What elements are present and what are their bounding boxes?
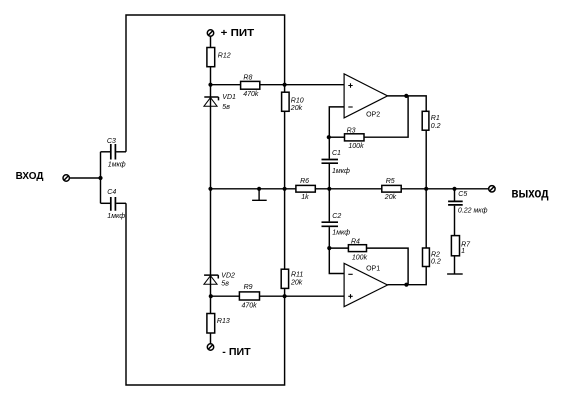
wire R3 left lead — [329, 136, 344, 138]
svg-text:OP2: OP2 — [366, 112, 380, 119]
node R8/chain/OP2+ junction — [283, 83, 287, 87]
svg-text:R4: R4 — [351, 239, 360, 246]
svg-text:R8: R8 — [243, 74, 252, 81]
svg-text:R12: R12 — [218, 53, 231, 60]
svg-text:R13: R13 — [217, 318, 230, 325]
wire OP2 minus input — [329, 107, 344, 137]
node VD2/R9/R13 junction — [209, 294, 213, 298]
wire C4 left lead — [101, 202, 111, 204]
svg-text:20k: 20k — [384, 194, 397, 201]
svg-text:C4: C4 — [107, 189, 116, 196]
svg-text:R3: R3 — [347, 127, 356, 134]
svg-text:0.2: 0.2 — [431, 258, 441, 265]
node input junction — [98, 176, 102, 180]
ground center — [252, 189, 267, 201]
node R12/R8/VD1 junction — [208, 83, 212, 87]
resistor R5 — [382, 185, 401, 192]
wire C2 bottom lead — [328, 227, 330, 248]
svg-text:1мкф: 1мкф — [332, 168, 350, 175]
wire input junction column — [100, 152, 102, 204]
node R4/C2/OP1- junction — [327, 246, 331, 250]
wire mid rail — [211, 188, 489, 190]
wire C3 left lead — [101, 151, 111, 153]
node R9/chain/OP1+ junction — [283, 294, 287, 298]
terminal output — [489, 186, 495, 192]
wire R8 row — [211, 84, 285, 86]
resistor R13 — [207, 314, 215, 334]
resistor R10 — [282, 92, 290, 111]
wire OP1 plus input — [285, 295, 345, 297]
wire C1 bottom lead — [328, 164, 330, 189]
wire R1 bottom to mid rail — [425, 130, 427, 189]
resistor R4 — [348, 245, 366, 252]
svg-text:C5: C5 — [458, 191, 467, 198]
capacitor C5 — [448, 201, 463, 205]
svg-text:5в: 5в — [222, 104, 230, 111]
op-amp OP2 — [344, 74, 387, 118]
svg-text:R10: R10 — [291, 97, 304, 104]
svg-text:470k: 470k — [242, 303, 258, 310]
svg-text:1мкф: 1мкф — [107, 213, 125, 220]
wire C1 top lead — [328, 137, 330, 159]
wire top loop: left edge, top edge, right chain upper — [126, 15, 285, 152]
wire right chain middle — [284, 111, 286, 269]
svg-text:R6: R6 — [300, 178, 309, 185]
resistor R12 — [207, 48, 215, 67]
ground right — [447, 273, 463, 275]
node mid rail at C5 — [452, 187, 456, 191]
wire R3 right lead to OP2 output — [364, 96, 408, 137]
node mid rail at C1/C2 — [327, 187, 331, 191]
wire C5 bottom to R7 — [454, 206, 456, 236]
svg-text:C2: C2 — [332, 213, 341, 220]
svg-text:R9: R9 — [244, 284, 253, 291]
resistor R2 — [423, 248, 430, 267]
node mid rail at right chain — [283, 187, 287, 191]
terminal input — [63, 175, 69, 181]
svg-text:1: 1 — [461, 248, 465, 255]
wire R4 left lead — [329, 247, 348, 249]
svg-text:OP1: OP1 — [366, 266, 380, 273]
svg-text:100k: 100k — [352, 255, 368, 262]
resistor R1 — [422, 111, 429, 130]
wire C3 right lead — [116, 151, 126, 153]
svg-text:1мкф: 1мкф — [332, 230, 350, 237]
zener diode VD1 — [204, 97, 219, 106]
wire OP1 output — [388, 267, 427, 285]
resistor R3 — [345, 134, 365, 141]
wire OP2 output — [388, 96, 427, 111]
wire input terminal to junction — [69, 177, 100, 179]
zener diode VD2 — [204, 275, 218, 284]
resistor R9 — [239, 292, 259, 300]
wire OP1 minus input — [329, 248, 344, 273]
wire C5 top lead — [454, 189, 456, 201]
svg-text:C1: C1 — [332, 150, 341, 157]
capacitor C4 — [111, 197, 116, 211]
terminal -PIT — [207, 344, 213, 350]
node OP1 output junction — [404, 283, 408, 287]
wire R9 row — [211, 295, 285, 297]
svg-text:0.22 мкф: 0.22 мкф — [458, 207, 488, 214]
svg-text:+ ПИТ: + ПИТ — [221, 28, 255, 39]
svg-text:470k: 470k — [243, 91, 259, 98]
resistor R7 — [451, 236, 459, 256]
resistor R8 — [241, 81, 260, 89]
svg-text:выход: выход — [511, 185, 548, 201]
wire C4 right lead — [116, 202, 126, 204]
resistor R11 — [281, 269, 288, 288]
capacitor C1 — [322, 160, 339, 164]
svg-text:1мкф: 1мкф — [108, 161, 126, 168]
wire R4 right lead to OP1 output — [367, 248, 409, 285]
capacitor C3 — [111, 144, 116, 160]
svg-text:R5: R5 — [386, 178, 395, 185]
resistor R6 — [296, 185, 315, 192]
svg-text:100k: 100k — [348, 143, 364, 150]
svg-text:1k: 1k — [301, 194, 309, 201]
node mid rail at ground — [257, 187, 261, 191]
svg-text:R1: R1 — [431, 115, 440, 122]
wire R7 to ground — [454, 256, 456, 274]
op-amp OP1 — [344, 263, 387, 306]
svg-text:VD1: VD1 — [222, 94, 236, 101]
node R3/C1/OP2- junction — [327, 135, 331, 139]
wire bottom loop: left edge, bottom edge, right chain lower — [126, 203, 285, 385]
capacitor C2 — [322, 222, 339, 226]
svg-text:0.2: 0.2 — [431, 123, 441, 130]
wire OP2 plus input — [285, 84, 345, 86]
node mid rail at R1/R2 — [424, 187, 428, 191]
svg-text:R11: R11 — [291, 272, 303, 279]
svg-text:- ПИТ: - ПИТ — [222, 347, 250, 358]
svg-text:ВХОД: ВХОД — [16, 170, 44, 182]
wire C2 top lead — [328, 189, 330, 222]
svg-text:VD2: VD2 — [221, 272, 235, 279]
svg-text:20k: 20k — [290, 105, 303, 112]
svg-text:C3: C3 — [107, 138, 116, 145]
svg-text:5в: 5в — [221, 280, 229, 287]
wire VD chain vertical — [210, 36, 212, 344]
node OP2 output junction — [404, 94, 408, 98]
svg-text:20k: 20k — [290, 280, 303, 287]
wire mid rail to R2 top — [425, 189, 427, 248]
terminal +PIT — [207, 30, 213, 36]
node mid rail at VD chain — [208, 187, 212, 191]
